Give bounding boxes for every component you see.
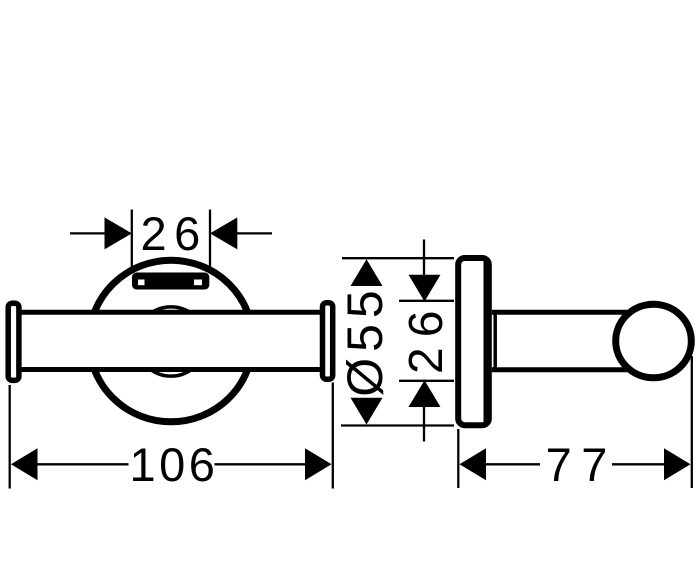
dim 26 right: bottom arrow (points up)	[409, 380, 441, 407]
side view: ball end	[616, 304, 692, 378]
dim 26 top: left arrow	[105, 217, 132, 249]
dim 77: right dim line segment	[612, 463, 666, 465]
dim 26 right: bottom extension line	[399, 380, 454, 382]
dim O55: top arrow (points up)	[351, 259, 383, 286]
dim 26 right: dim line upper segment	[423, 240, 425, 296]
front view: bar bottom edge	[22, 367, 321, 372]
dim 77: right extension line	[691, 356, 693, 488]
dim O55: bottom extension line	[341, 424, 454, 426]
dim 26 top: right leader line	[236, 232, 272, 234]
dim 106: left extension line	[9, 385, 11, 489]
dim 106: right arrow	[305, 448, 332, 480]
dim 106: right extension line	[332, 383, 334, 489]
dim 26 right: top extension line	[399, 300, 454, 302]
dim 77: left dim line segment	[485, 463, 540, 465]
front view: inner collar circle	[136, 307, 205, 376]
svg-text:26: 26	[400, 301, 453, 374]
dim 77: left extension line	[457, 429, 459, 488]
side view: wall plate	[458, 258, 489, 425]
front view: bar top edge	[22, 310, 321, 315]
dim 26 top: right extension line	[209, 210, 211, 272]
side view: arm root joint line	[493, 311, 497, 372]
dim 106: right dim line segment	[215, 463, 307, 465]
dim 26 right: top arrow (points down)	[409, 275, 441, 302]
dim 106: left dim line segment	[36, 463, 129, 465]
dim 26 right: dim line lower segment	[423, 390, 425, 442]
svg-text:Ø55: Ø55	[337, 284, 393, 397]
front view: bar body (white fill)	[22, 310, 321, 372]
svg-text:26: 26	[140, 207, 207, 260]
dim 26 top: left extension line	[131, 210, 133, 272]
front view: mounting plate outer circle	[89, 260, 253, 422]
dim O55: bottom arrow (points down)	[351, 398, 383, 425]
front view: slot right notch	[194, 280, 202, 286]
front view: mounting slot (filled)	[132, 273, 209, 290]
dim 26 top: right arrow	[210, 217, 237, 249]
front view: slot left notch	[138, 280, 145, 286]
dim 106: left arrow	[11, 448, 38, 480]
dim 26 top: left leader line	[70, 232, 105, 234]
dim 77: right arrow	[664, 448, 691, 480]
svg-text:106: 106	[129, 438, 218, 491]
dim O55: top extension line	[342, 257, 454, 259]
svg-text:77: 77	[546, 438, 617, 491]
side view: arm bottom edge	[492, 367, 627, 372]
side view: plate rear inner edge line	[483, 261, 486, 422]
front view: left end cap	[8, 303, 19, 380]
dim 77: left arrow	[460, 448, 487, 480]
front view: right end cap	[323, 303, 333, 380]
side view: arm top edge	[492, 310, 627, 315]
